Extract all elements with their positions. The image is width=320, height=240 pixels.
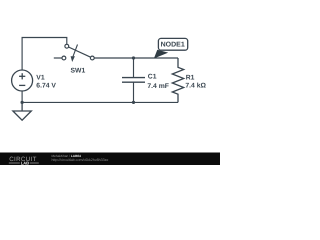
wire bottom rail	[22, 101, 178, 103]
svg-text:C1: C1	[148, 74, 157, 81]
svg-text:7.4 kΩ: 7.4 kΩ	[185, 83, 206, 90]
junction at V1 / ground / bottom rail	[21, 101, 24, 104]
svg-text:7.4 mF: 7.4 mF	[147, 83, 169, 90]
ground	[13, 102, 31, 120]
svg-text:NODE1: NODE1	[161, 42, 185, 49]
wire C1 top lead	[133, 58, 135, 77]
node NODE1 label box	[158, 38, 187, 50]
svg-text:SW1: SW1	[71, 67, 86, 74]
svg-text:R1: R1	[186, 74, 195, 81]
junction C1 bottom	[132, 101, 135, 104]
capacitor C1	[122, 78, 145, 83]
node NODE1 flag pointer	[154, 50, 168, 59]
svg-text:http://circuitlab.com/c6kk2hv8: http://circuitlab.com/c6kk2hv8h33ze	[52, 158, 109, 162]
wire C1 bottom lead	[133, 82, 135, 102]
wire top-left rail	[22, 38, 67, 71]
wire V1 bottom lead	[21, 91, 23, 102]
switch SW1	[54, 44, 94, 62]
footer CircuitLab logo	[9, 156, 39, 165]
footer bar	[0, 153, 220, 166]
svg-text:V1: V1	[36, 75, 45, 82]
junction C1 top	[132, 56, 135, 59]
wire node rail	[94, 57, 178, 59]
svg-text:LAB: LAB	[21, 160, 29, 165]
svg-text:6.74 V: 6.74 V	[36, 83, 56, 90]
voltage source V1	[12, 70, 33, 91]
resistor R1	[172, 58, 183, 102]
